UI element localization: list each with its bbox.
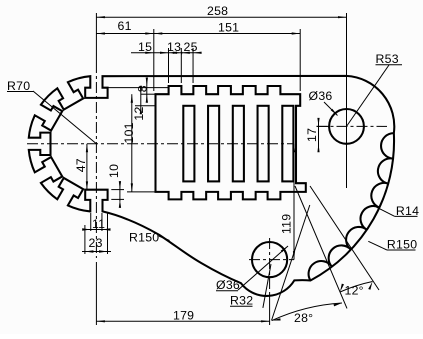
ext 11 left xyxy=(90,213,92,231)
arrow D36 bottom xyxy=(281,246,288,252)
arrow 12deg b xyxy=(368,282,372,290)
arrow 28deg r xyxy=(334,303,343,306)
ext 151 right xyxy=(299,29,301,91)
svg-text:10: 10 xyxy=(107,164,121,178)
svg-text:R150: R150 xyxy=(129,231,159,245)
hole top circle Ø36 xyxy=(329,109,364,144)
arrows 179 xyxy=(96,320,105,322)
ext 101 lower xyxy=(127,191,155,193)
arrows 17 xyxy=(317,118,319,127)
svg-text:151: 151 xyxy=(218,21,239,35)
leader R14 xyxy=(377,207,395,216)
ext 179 left xyxy=(95,262,97,325)
dim 179 line xyxy=(96,320,269,322)
svg-text:61: 61 xyxy=(118,19,132,33)
arc 12deg xyxy=(340,282,373,293)
hole bottom circle Ø36 xyxy=(252,242,287,277)
arrows 10 xyxy=(119,181,121,190)
arrows 47 xyxy=(86,144,88,153)
svg-text:Ø36: Ø36 xyxy=(216,278,240,292)
svg-text:25: 25 xyxy=(184,40,198,54)
dim 17 line xyxy=(318,120,320,150)
dim 10 line xyxy=(119,183,121,202)
svg-text:23: 23 xyxy=(89,236,103,250)
leader D36 bottom xyxy=(238,246,288,290)
arrow 28deg l xyxy=(272,318,281,320)
part outline xyxy=(29,76,395,296)
dim 8 line xyxy=(146,80,148,100)
arrows 11 xyxy=(82,228,91,230)
arrows 12 xyxy=(140,86,142,95)
ext 17 upper xyxy=(317,125,331,127)
leader R150 left xyxy=(159,236,170,241)
ext 10 lower xyxy=(111,198,124,200)
leader D36 top xyxy=(324,102,338,116)
svg-text:R32: R32 xyxy=(230,294,253,308)
centerline horizontal main xyxy=(27,143,294,145)
svg-text:11: 11 xyxy=(92,217,105,231)
dim 47 line xyxy=(86,144,88,190)
ext tooth2 left xyxy=(192,48,194,83)
ray 12deg b xyxy=(310,186,379,290)
svg-text:179: 179 xyxy=(173,309,194,323)
centerline vertical ring xyxy=(95,13,97,62)
ext 10 upper xyxy=(111,189,124,191)
ext 11 right xyxy=(101,213,103,231)
dim 101 line xyxy=(131,94,133,192)
arc 28deg xyxy=(272,303,342,321)
svg-text:15: 15 xyxy=(138,40,152,54)
ext 179 right xyxy=(269,296,271,325)
svg-text:12°: 12° xyxy=(345,284,364,298)
centerline bottom circle vertical xyxy=(269,238,271,296)
underline D36 bottom xyxy=(216,290,238,292)
dim 23 line xyxy=(82,251,111,253)
ext 8-dim upper xyxy=(108,87,169,89)
dim 119 line xyxy=(293,144,295,260)
arrows 101 xyxy=(131,94,133,103)
ext 23 left xyxy=(84,225,86,254)
svg-text:17: 17 xyxy=(305,128,319,142)
ext 23 right xyxy=(107,213,109,254)
svg-text:47: 47 xyxy=(74,158,88,172)
ext tooth1 left xyxy=(168,48,170,83)
svg-text:101: 101 xyxy=(122,122,136,143)
svg-text:R53: R53 xyxy=(376,52,399,66)
ray 12deg a xyxy=(295,186,347,308)
svg-text:8: 8 xyxy=(135,85,149,92)
centerline top circle vertical xyxy=(346,13,348,188)
arrows 258 xyxy=(96,16,105,18)
ext tooth1 right xyxy=(180,48,182,83)
dim 11 line xyxy=(85,229,109,231)
ext 61/151 xyxy=(153,29,155,91)
underline R150 right xyxy=(387,249,416,251)
underline R53 xyxy=(376,64,403,66)
svg-text:119: 119 xyxy=(280,214,294,234)
arrows 15 xyxy=(145,52,154,54)
comb grate xyxy=(156,86,306,199)
dim 15/13/25 line xyxy=(131,52,199,54)
centerline top circle horizontal xyxy=(317,125,388,127)
dim 258 line xyxy=(96,16,346,18)
dim 151 line xyxy=(154,33,300,35)
dim 61 line xyxy=(96,33,153,35)
underline R70 xyxy=(7,91,34,93)
svg-text:258: 258 xyxy=(207,4,228,18)
centerline bottom circle horizontal xyxy=(249,259,294,261)
arrow D36 top xyxy=(331,109,338,116)
ext 8 lower xyxy=(141,93,156,95)
arrows 151 xyxy=(154,32,163,34)
ray 28deg ref xyxy=(272,205,310,321)
scallop bites R14 xyxy=(309,133,394,280)
leader R32 xyxy=(263,264,271,308)
svg-text:R70: R70 xyxy=(7,79,30,93)
arrows 61 xyxy=(96,32,105,34)
svg-text:12: 12 xyxy=(132,106,146,120)
underline R32 xyxy=(230,305,253,307)
arrow 12deg a xyxy=(340,284,344,292)
comb slots xyxy=(183,106,194,182)
leader R150 right xyxy=(368,241,387,250)
svg-text:Ø36: Ø36 xyxy=(309,89,333,103)
ext 12 lower xyxy=(135,105,156,107)
dim 12 line xyxy=(140,88,142,112)
svg-text:28°: 28° xyxy=(294,311,313,325)
arrows 13 xyxy=(160,52,169,54)
arrows 8 xyxy=(146,78,148,87)
arrows 119 xyxy=(293,144,295,153)
underline R14 xyxy=(395,215,418,217)
arrows 25 xyxy=(173,52,182,54)
leader R70 xyxy=(33,91,96,144)
leader R53 xyxy=(347,65,390,126)
arrows 23 xyxy=(85,250,94,252)
